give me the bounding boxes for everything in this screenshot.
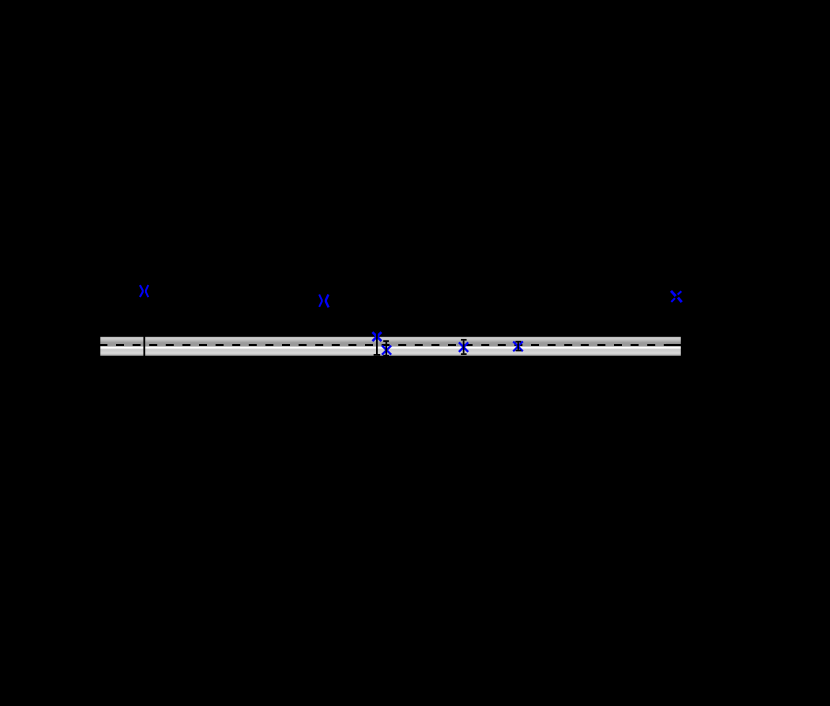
road — [100, 337, 681, 356]
node C — [672, 292, 681, 301]
vertical divider line — [143, 337, 145, 357]
node A — [140, 285, 148, 297]
errorbar D — [374, 333, 381, 355]
node D cross — [372, 332, 381, 341]
node F cross — [459, 342, 468, 352]
lane dashed centerline — [99, 344, 680, 346]
node G cross — [513, 341, 523, 351]
errorbar G — [515, 342, 521, 351]
final merged dash at road end — [666, 344, 681, 346]
node E cross — [382, 346, 391, 355]
errorbar E — [383, 341, 389, 356]
errorbar F — [461, 340, 467, 354]
node B — [319, 295, 328, 308]
